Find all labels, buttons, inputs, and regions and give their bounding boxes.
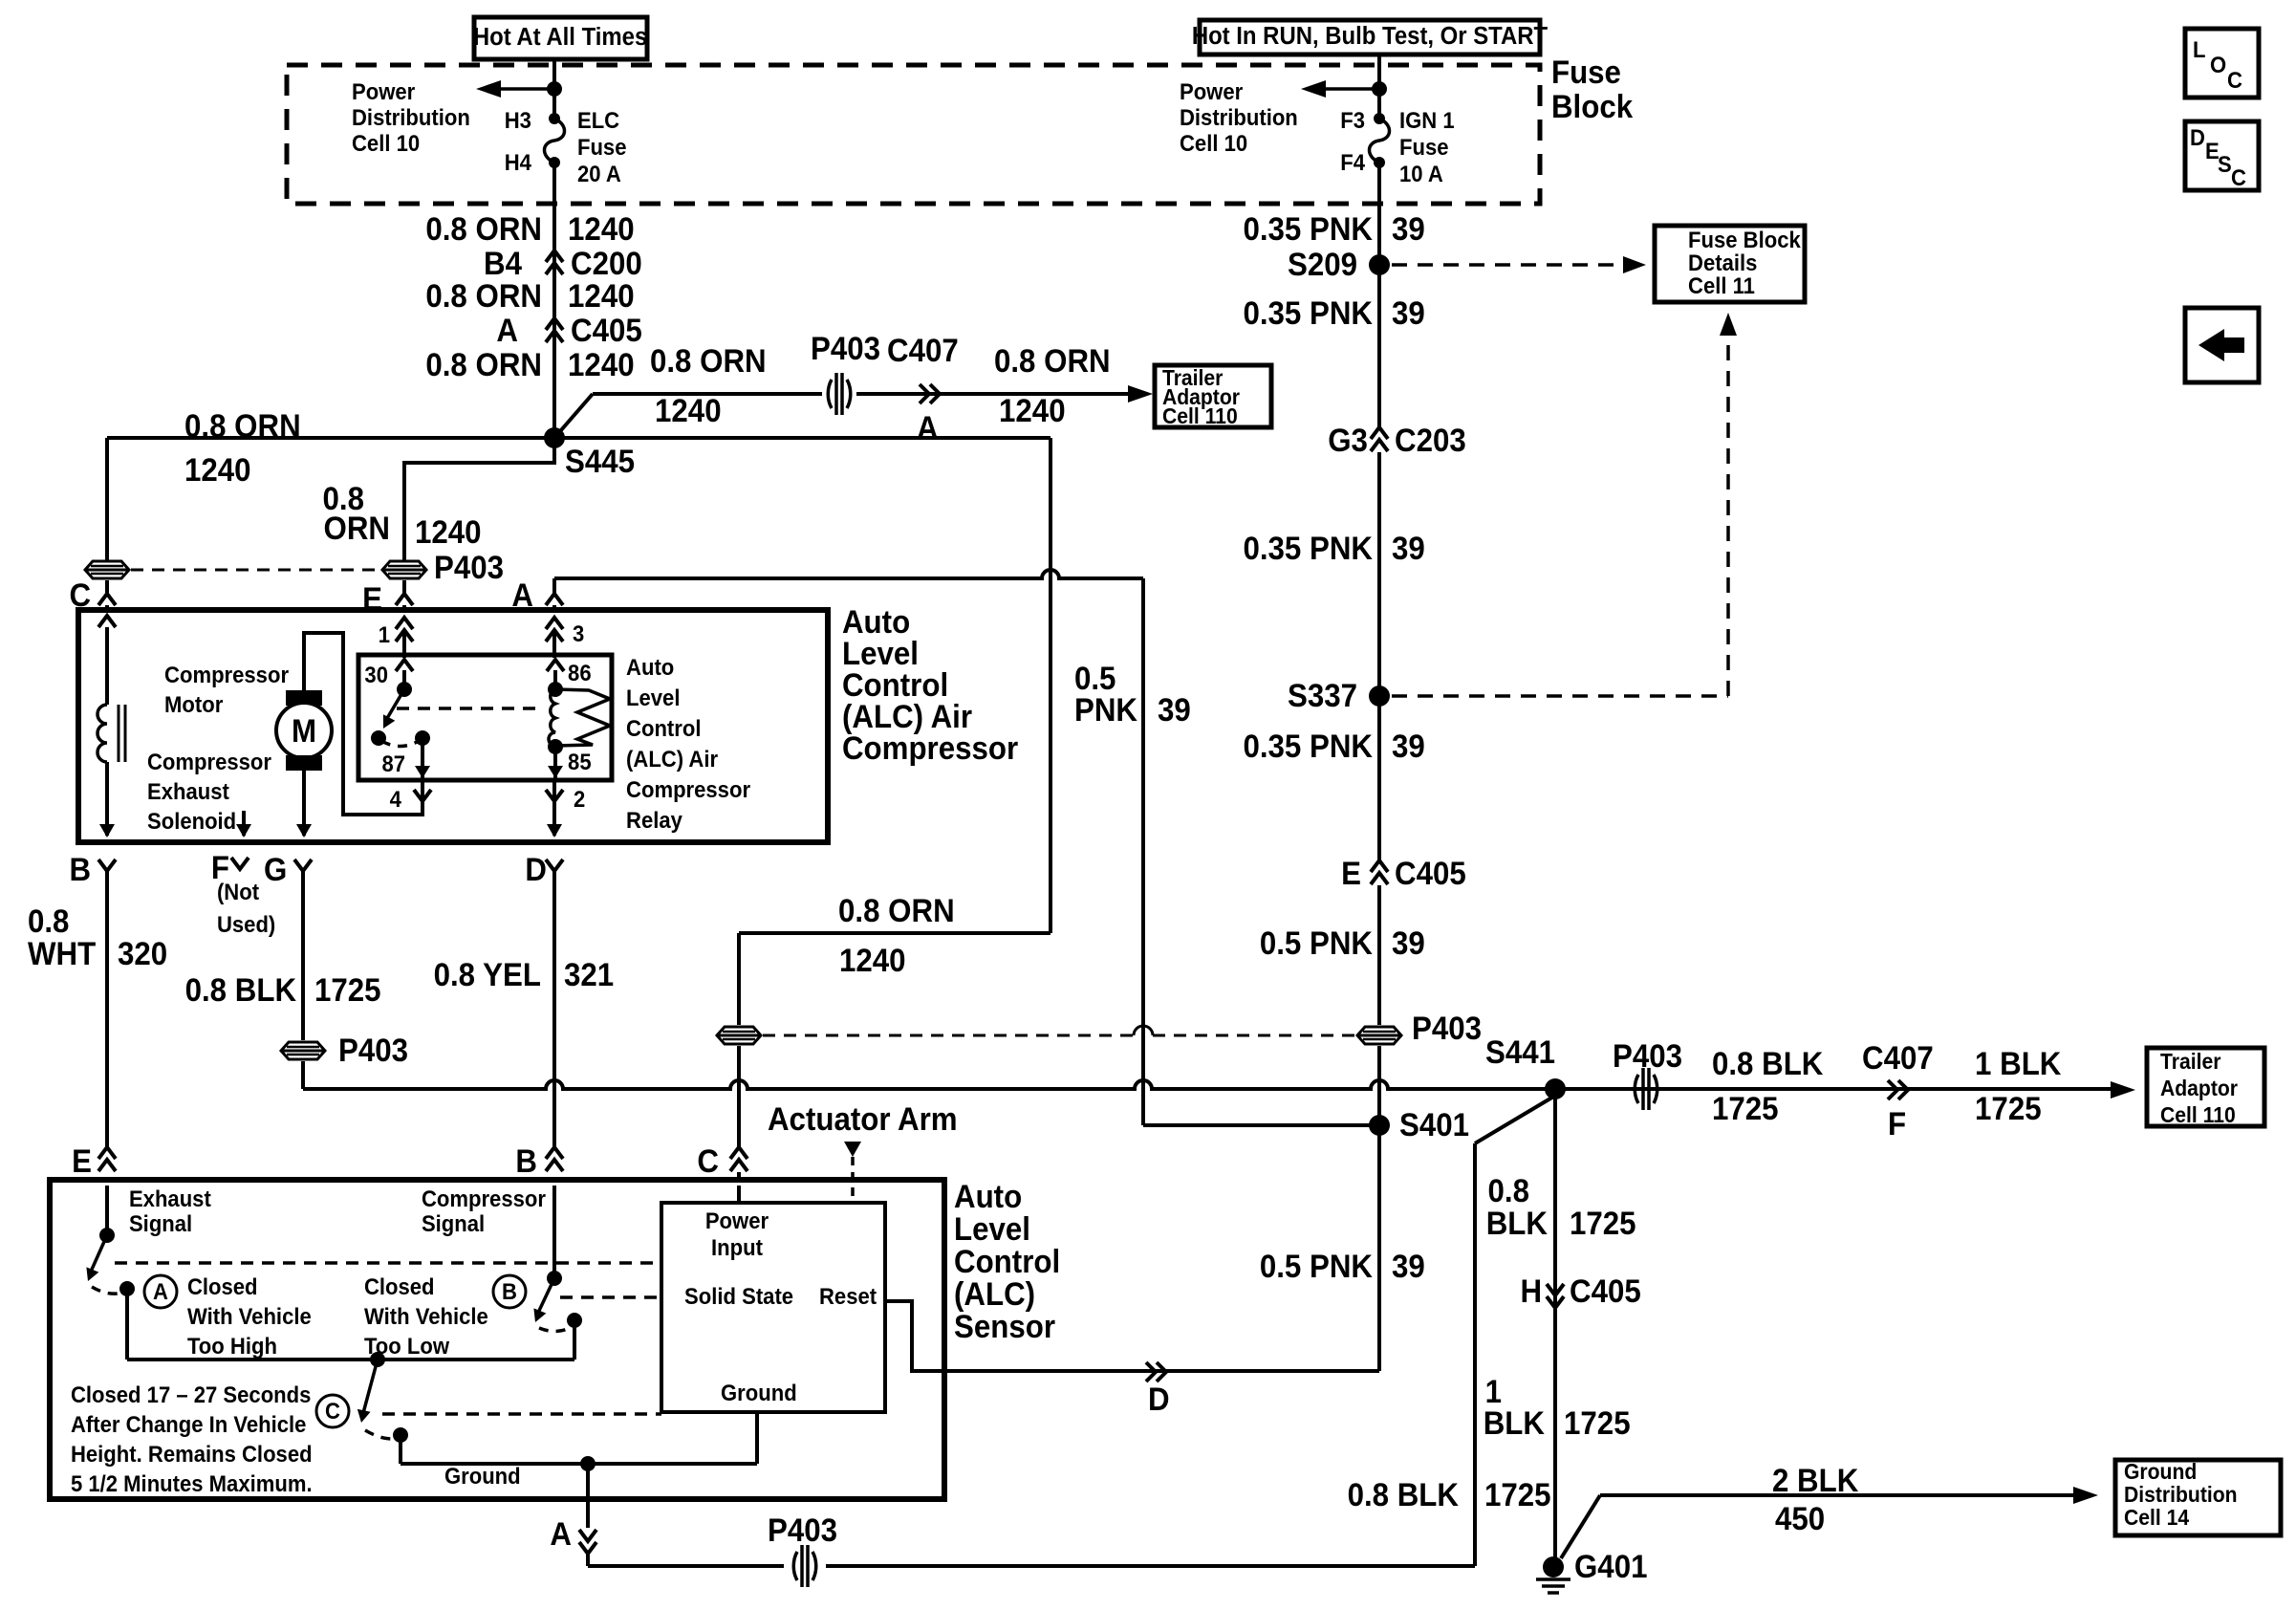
svg-text:(Not: (Not bbox=[217, 879, 259, 904]
svg-text:F3: F3 bbox=[1340, 107, 1365, 133]
svg-text:After Change In Vehicle: After Change In Vehicle bbox=[71, 1411, 307, 1437]
svg-text:G401: G401 bbox=[1574, 1548, 1647, 1585]
svg-text:(ALC) Air: (ALC) Air bbox=[626, 746, 718, 772]
svg-text:D: D bbox=[1148, 1381, 1170, 1418]
svg-text:Fuse: Fuse bbox=[1399, 134, 1449, 160]
dashed reference line S337 to fuse block details bbox=[1392, 694, 1728, 698]
svg-text:1725: 1725 bbox=[1564, 1404, 1631, 1442]
svg-text:Auto: Auto bbox=[626, 654, 674, 680]
svg-text:Hot In RUN, Bulb Test, Or STAR: Hot In RUN, Bulb Test, Or START bbox=[1192, 22, 1548, 50]
svg-text:P403: P403 bbox=[768, 1512, 837, 1549]
wire: grommet down to S401 bbox=[1377, 1046, 1381, 1125]
svg-text:Compressor: Compressor bbox=[422, 1186, 546, 1211]
wire: ELC fuse output down to S445 bbox=[552, 163, 556, 438]
svg-text:O: O bbox=[2210, 52, 2226, 77]
svg-text:3: 3 bbox=[573, 620, 584, 646]
connector F (not used) bbox=[231, 858, 249, 869]
svg-text:H4: H4 bbox=[505, 149, 531, 175]
wire: sensor ground to riser bbox=[588, 1564, 784, 1568]
wire: sensor ground riser bbox=[1473, 1143, 1477, 1566]
svg-text:C: C bbox=[2231, 164, 2246, 190]
svg-text:Block: Block bbox=[1551, 88, 1634, 125]
splice S337 bbox=[1369, 685, 1390, 707]
svg-text:39: 39 bbox=[1158, 691, 1191, 729]
svg-text:86: 86 bbox=[568, 660, 592, 685]
wire: black ground run from G wire to trailer adaptor bbox=[303, 1080, 2111, 1089]
svg-text:85: 85 bbox=[568, 749, 592, 774]
svg-text:1240: 1240 bbox=[568, 210, 635, 248]
wire: E input to exhaust switch bbox=[105, 1186, 109, 1235]
svg-text:Signal: Signal bbox=[129, 1210, 192, 1236]
relay coil winding bbox=[549, 689, 555, 746]
svg-text:C203: C203 bbox=[1395, 422, 1466, 459]
svg-text:Power: Power bbox=[1180, 78, 1243, 104]
svg-text:G: G bbox=[264, 851, 287, 888]
wire: motor to pin G bbox=[302, 771, 306, 836]
compressor switch arm bbox=[538, 1278, 554, 1313]
svg-text:(ALC): (ALC) bbox=[954, 1275, 1035, 1313]
svg-text:1: 1 bbox=[379, 621, 390, 647]
svg-text:1240: 1240 bbox=[184, 451, 251, 489]
connector C405 pin H bbox=[1547, 1284, 1564, 1308]
relay dashed actuation link to coil bbox=[397, 707, 541, 710]
svg-text:Fuse Block: Fuse Block bbox=[1688, 227, 1801, 252]
svg-text:321: 321 bbox=[564, 956, 614, 993]
svg-text:Cell 110: Cell 110 bbox=[1162, 403, 1238, 428]
svg-text:A: A bbox=[550, 1515, 572, 1553]
svg-text:1240: 1240 bbox=[999, 392, 1066, 429]
svg-text:B: B bbox=[515, 1142, 537, 1180]
connector C407-style pin D on reset/PNK line bbox=[1146, 1362, 1166, 1382]
svg-text:E: E bbox=[1341, 855, 1361, 892]
svg-text:P403: P403 bbox=[1613, 1037, 1682, 1075]
connector P403 grommet on PNK wire bbox=[1357, 1027, 1401, 1044]
dashed control link: timer bbox=[382, 1412, 661, 1416]
junction dots at feed taps bbox=[547, 81, 562, 97]
svg-text:1725: 1725 bbox=[314, 971, 381, 1009]
svg-text:S: S bbox=[2218, 151, 2232, 177]
svg-text:1725: 1725 bbox=[1975, 1090, 2042, 1127]
node F3/F4 dots and IGN 1 fuse bbox=[1374, 113, 1385, 124]
svg-text:Reset: Reset bbox=[819, 1283, 877, 1309]
wire: IGN fuse output down to S209 bbox=[1377, 163, 1381, 265]
connector A of sensor bbox=[586, 1499, 590, 1528]
exhaust switch travel dashed arc bbox=[92, 1287, 122, 1294]
component box: Auto Level Control (ALC) Sensor bbox=[50, 1180, 944, 1499]
connector A of compressor bbox=[546, 594, 563, 605]
svg-text:IGN 1: IGN 1 bbox=[1399, 107, 1455, 133]
connector P403 grommet on G wire bbox=[281, 1042, 325, 1059]
connector D of compressor bbox=[546, 859, 563, 871]
svg-text:1240: 1240 bbox=[415, 513, 482, 551]
svg-text:Ground: Ground bbox=[444, 1463, 521, 1489]
svg-text:0.35 PNK: 0.35 PNK bbox=[1243, 530, 1373, 567]
relay switch contact dots bbox=[371, 730, 386, 746]
svg-text:Fuse: Fuse bbox=[577, 134, 627, 160]
svg-text:Cell 11: Cell 11 bbox=[1688, 272, 1755, 298]
wire: S445 stub to relay pin E branch bbox=[404, 438, 554, 560]
wire: G401 branch to ground distribution bbox=[1561, 1495, 1600, 1558]
wire: 0.5 PNK drop to S401 bbox=[1141, 578, 1145, 1125]
svg-text:Cell 110: Cell 110 bbox=[2160, 1102, 2236, 1127]
wire: module reset output bbox=[885, 1301, 1379, 1371]
svg-text:Hot At All Times: Hot At All Times bbox=[473, 23, 647, 51]
legend box back-arrow bbox=[2185, 308, 2259, 382]
svg-text:Relay: Relay bbox=[626, 807, 682, 833]
ground G401 bbox=[1543, 1556, 1564, 1577]
svg-text:C405: C405 bbox=[1570, 1273, 1641, 1310]
connector C407 pin F bbox=[1888, 1080, 1908, 1099]
svg-text:2: 2 bbox=[574, 786, 585, 812]
wire: battery feed into ELC fuse bbox=[552, 59, 556, 119]
connector C407 pin A (trailer feed) bbox=[920, 384, 940, 403]
svg-text:C405: C405 bbox=[571, 312, 642, 349]
circled B note bbox=[493, 1275, 526, 1308]
pin 1 connector arrow inside compressor bbox=[396, 618, 413, 642]
svg-text:0.8 ORN: 0.8 ORN bbox=[650, 342, 767, 380]
wire: S445 diagonal branch to trailer adaptor feed bbox=[554, 394, 593, 438]
svg-text:C407: C407 bbox=[1862, 1039, 1934, 1077]
wire: module ground lead bbox=[755, 1412, 759, 1464]
svg-text:0.8 BLK: 0.8 BLK bbox=[1348, 1476, 1460, 1513]
svg-text:C: C bbox=[2227, 67, 2242, 93]
compressor exhaust solenoid coil bbox=[97, 705, 107, 762]
connector P403 in-line on ground run bbox=[1635, 1075, 1638, 1103]
legend box LOC bbox=[2185, 29, 2259, 98]
actuator arm dashed link bbox=[844, 1142, 861, 1157]
svg-text:1 BLK: 1 BLK bbox=[1975, 1045, 2062, 1082]
svg-text:L: L bbox=[2193, 36, 2205, 62]
svg-text:Solenoid: Solenoid bbox=[147, 808, 236, 834]
wire: S441 diagonal to sensor ground riser bbox=[1475, 1096, 1555, 1143]
timer switch arm bbox=[363, 1360, 378, 1413]
svg-text:H: H bbox=[1520, 1273, 1542, 1310]
svg-text:Sensor: Sensor bbox=[954, 1308, 1055, 1345]
connector B of sensor bbox=[546, 1147, 563, 1171]
label box: Trailer Adaptor Cell 110 (top) bbox=[1155, 365, 1271, 427]
connector grommet on pin C wire bbox=[85, 561, 129, 578]
ground junction dot bbox=[580, 1456, 596, 1471]
svg-text:BLK: BLK bbox=[1484, 1404, 1546, 1442]
svg-text:Fuse: Fuse bbox=[1551, 54, 1621, 91]
connector C of compressor bbox=[105, 580, 109, 593]
wire: ignition feed into IGN 1 fuse bbox=[1377, 54, 1381, 119]
svg-text:P403: P403 bbox=[434, 549, 504, 586]
svg-text:1725: 1725 bbox=[1570, 1205, 1636, 1242]
wire: 0.8 ORN 1240 feed to C407 trailer adaptor bbox=[593, 392, 822, 396]
wire: S445 right branch toward ALC sensor power bbox=[554, 436, 1051, 440]
svg-text:39: 39 bbox=[1392, 925, 1425, 962]
svg-text:1240: 1240 bbox=[655, 392, 722, 429]
wire: horizontal to sensor power input drop bbox=[739, 931, 1051, 935]
svg-text:M: M bbox=[292, 712, 316, 750]
label box: Trailer Adaptor Cell 110 (right) bbox=[2147, 1048, 2264, 1126]
svg-text:Used): Used) bbox=[217, 911, 275, 937]
svg-text:H3: H3 bbox=[505, 107, 531, 133]
dashed pairing line to P403 grommet on PNK wire bbox=[763, 1034, 1134, 1037]
svg-text:D: D bbox=[525, 851, 547, 888]
label box: Fuse Block Details Cell 11 bbox=[1655, 226, 1805, 302]
svg-text:BLK: BLK bbox=[1486, 1205, 1549, 1242]
svg-text:Compressor: Compressor bbox=[164, 662, 289, 687]
svg-text:Closed: Closed bbox=[364, 1273, 435, 1299]
relay switch movable arm bbox=[386, 689, 404, 720]
svg-text:With Vehicle: With Vehicle bbox=[364, 1303, 488, 1329]
compressor switch pivot bbox=[547, 1271, 562, 1286]
svg-text:B: B bbox=[502, 1278, 517, 1304]
svg-text:0.5 PNK: 0.5 PNK bbox=[1260, 925, 1374, 962]
svg-text:Exhaust: Exhaust bbox=[129, 1186, 211, 1211]
svg-text:F: F bbox=[1888, 1105, 1906, 1142]
connector P403 grommet on sensor power wire bbox=[717, 1027, 761, 1044]
svg-text:S337: S337 bbox=[1288, 677, 1357, 714]
svg-text:0.8 ORN: 0.8 ORN bbox=[994, 342, 1111, 380]
connector C405 pin A bbox=[546, 318, 563, 342]
wire: drop to sensor C input bbox=[737, 933, 741, 1025]
svg-text:30: 30 bbox=[364, 662, 388, 687]
connector E of sensor bbox=[98, 1147, 116, 1171]
svg-text:39: 39 bbox=[1392, 1248, 1425, 1285]
wire: sensor internal ground run bbox=[401, 1462, 757, 1466]
node H3/H4 dots and ELC fuse bbox=[549, 113, 560, 124]
pin F stub (not used) bbox=[242, 811, 246, 836]
svg-text:C: C bbox=[697, 1142, 719, 1180]
compressor switch travel dashed arc bbox=[539, 1328, 570, 1332]
wire: B input to compressor switch bbox=[552, 1186, 556, 1278]
relay box: ALC Air Compressor Relay bbox=[358, 655, 612, 780]
wire: pin C into exhaust solenoid bbox=[98, 616, 116, 627]
svg-text:Adaptor: Adaptor bbox=[2160, 1076, 2238, 1100]
svg-text:39: 39 bbox=[1392, 294, 1425, 332]
svg-text:0.5 PNK: 0.5 PNK bbox=[1260, 1248, 1374, 1285]
svg-text:Level: Level bbox=[954, 1210, 1030, 1248]
svg-text:Level: Level bbox=[626, 685, 680, 710]
svg-text:C405: C405 bbox=[1395, 855, 1466, 892]
svg-text:B: B bbox=[69, 851, 91, 888]
connector G of compressor bbox=[294, 859, 312, 871]
svg-text:Cell 14: Cell 14 bbox=[2124, 1505, 2190, 1530]
connector C of ALC sensor bbox=[730, 1147, 747, 1171]
svg-text:450: 450 bbox=[1775, 1500, 1825, 1537]
svg-text:Distribution: Distribution bbox=[1180, 104, 1298, 130]
svg-text:0.8 BLK: 0.8 BLK bbox=[185, 971, 297, 1009]
svg-text:Cell 10: Cell 10 bbox=[352, 130, 420, 156]
svg-text:0.35 PNK: 0.35 PNK bbox=[1243, 210, 1373, 248]
splice S441 bbox=[1545, 1078, 1566, 1099]
wire: G wire to ground run bbox=[301, 1061, 305, 1089]
wire: exhaust contact down bbox=[125, 1289, 129, 1360]
relay output 2 lead down bbox=[546, 790, 563, 801]
svg-text:1240: 1240 bbox=[568, 277, 635, 315]
svg-text:Cell 10: Cell 10 bbox=[1180, 130, 1247, 156]
circled C note bbox=[316, 1395, 349, 1427]
svg-text:39: 39 bbox=[1392, 210, 1425, 248]
svg-text:39: 39 bbox=[1392, 728, 1425, 765]
connector B of compressor bbox=[98, 859, 116, 871]
connector C405 pin E bbox=[1371, 860, 1388, 884]
svg-text:S445: S445 bbox=[565, 443, 635, 480]
svg-text:F4: F4 bbox=[1340, 149, 1365, 175]
svg-text:20 A: 20 A bbox=[577, 161, 621, 186]
svg-text:WHT: WHT bbox=[28, 935, 96, 972]
svg-text:0.8 ORN: 0.8 ORN bbox=[425, 277, 542, 315]
svg-text:4: 4 bbox=[390, 786, 401, 812]
svg-text:P403: P403 bbox=[1412, 1010, 1482, 1047]
svg-text:Compressor: Compressor bbox=[842, 729, 1018, 767]
arrowhead into trailer adaptor cell bbox=[2111, 1081, 2135, 1099]
legend box DESC bbox=[2185, 121, 2259, 190]
relay switch travel dashed arc bbox=[381, 741, 419, 747]
wire: S337 down to C405 pin E bbox=[1377, 696, 1381, 860]
svg-text:Solid State: Solid State bbox=[684, 1283, 793, 1309]
svg-text:With Vehicle: With Vehicle bbox=[187, 1303, 312, 1329]
svg-text:0.8: 0.8 bbox=[1487, 1172, 1528, 1209]
arrow to power distribution (left) bbox=[483, 87, 554, 91]
fuse block dashed boundary bbox=[287, 65, 1540, 204]
svg-text:P403: P403 bbox=[811, 330, 880, 367]
svg-text:S441: S441 bbox=[1485, 1033, 1555, 1071]
wire: solenoid to pin B bbox=[105, 762, 109, 836]
wire: left branch down to pin C bbox=[105, 438, 109, 560]
connector E of compressor bbox=[402, 580, 406, 593]
svg-text:Auto: Auto bbox=[954, 1178, 1022, 1215]
svg-text:Input: Input bbox=[711, 1234, 763, 1260]
wire: C203 down to S337 bbox=[1377, 452, 1381, 696]
label box: Hot In RUN, Bulb Test, Or START bbox=[1200, 20, 1540, 54]
compressor motor M bbox=[286, 690, 322, 706]
svg-text:ELC: ELC bbox=[577, 107, 619, 133]
svg-text:S401: S401 bbox=[1399, 1106, 1469, 1143]
wire: pin A elbow feed across to sensor branch bbox=[554, 570, 1143, 578]
splice S401 bbox=[1369, 1115, 1390, 1136]
compressor switch contact bbox=[567, 1313, 582, 1328]
svg-text:0.8 YEL: 0.8 YEL bbox=[434, 956, 541, 993]
wire: C405 to P403 grommet bbox=[1377, 885, 1381, 1025]
svg-text:D: D bbox=[2190, 124, 2205, 150]
relay pin 85 lead bbox=[553, 747, 557, 778]
svg-text:Motor: Motor bbox=[164, 691, 223, 717]
svg-text:0.8 ORN: 0.8 ORN bbox=[838, 892, 955, 929]
svg-text:Closed: Closed bbox=[187, 1273, 258, 1299]
exhaust switch arm bbox=[91, 1235, 107, 1272]
connector C200 pin B4 bbox=[546, 250, 563, 274]
svg-text:C407: C407 bbox=[887, 332, 959, 369]
svg-text:Ground: Ground bbox=[721, 1380, 797, 1405]
splice S445 bbox=[544, 427, 565, 448]
connector C203 pin G3 bbox=[1371, 427, 1388, 451]
svg-text:A: A bbox=[496, 312, 518, 349]
dashed pairing line between grommets bbox=[131, 569, 380, 572]
exhaust switch pivot bbox=[99, 1228, 115, 1243]
svg-text:1725: 1725 bbox=[1484, 1476, 1551, 1513]
svg-text:5 1/2 Minutes Maximum.: 5 1/2 Minutes Maximum. bbox=[71, 1470, 313, 1496]
wire: elbow to S401 splice bbox=[1143, 1123, 1379, 1127]
svg-text:1725: 1725 bbox=[1712, 1090, 1779, 1127]
svg-text:Power: Power bbox=[705, 1207, 769, 1233]
svg-text:PNK: PNK bbox=[1074, 691, 1137, 729]
pin 3 connector arrow inside compressor bbox=[546, 618, 563, 642]
timer switch contact bbox=[393, 1427, 408, 1443]
component box: Auto Level Control (ALC) Air Compressor bbox=[78, 610, 828, 842]
relay pin 86 terminal bbox=[547, 660, 564, 671]
svg-text:Closed 17 – 27 Seconds: Closed 17 – 27 Seconds bbox=[71, 1382, 311, 1407]
svg-text:S209: S209 bbox=[1288, 246, 1357, 283]
wire: S209 down to C203 bbox=[1377, 265, 1381, 427]
wire: S401 down to sensor D elbow bbox=[1377, 1125, 1381, 1371]
splice S209 bbox=[1369, 254, 1390, 275]
svg-text:C: C bbox=[325, 1398, 340, 1424]
connector P403 in-line on sensor ground bbox=[793, 1552, 797, 1580]
svg-text:B4: B4 bbox=[484, 245, 522, 282]
svg-text:Actuator Arm: Actuator Arm bbox=[768, 1100, 958, 1138]
label box: Hot At All Times bbox=[474, 17, 647, 59]
svg-text:10 A: 10 A bbox=[1399, 161, 1443, 186]
svg-text:Power: Power bbox=[352, 78, 415, 104]
wire: S445 left branch to compressor pin C bbox=[107, 436, 554, 440]
svg-text:Height. Remains Closed: Height. Remains Closed bbox=[71, 1441, 313, 1467]
timer switch travel dashed arc bbox=[365, 1430, 395, 1439]
exhaust switch contact bbox=[119, 1281, 135, 1296]
svg-text:87: 87 bbox=[381, 751, 405, 776]
svg-text:0.8: 0.8 bbox=[28, 903, 69, 940]
svg-text:1240: 1240 bbox=[568, 346, 635, 383]
svg-text:A: A bbox=[917, 409, 939, 446]
connector P403 grommet on pin E wire bbox=[382, 561, 426, 578]
svg-text:Ground: Ground bbox=[2124, 1459, 2197, 1484]
svg-text:Distribution: Distribution bbox=[352, 104, 470, 130]
label box: Ground Distribution Cell 14 bbox=[2115, 1460, 2281, 1535]
svg-text:0.8 ORN: 0.8 ORN bbox=[425, 210, 542, 248]
svg-text:Signal: Signal bbox=[422, 1210, 485, 1236]
dashed reference line S209 to fuse block details bbox=[1392, 263, 1625, 267]
svg-text:320: 320 bbox=[118, 935, 167, 972]
timer switch pivot bbox=[370, 1352, 385, 1367]
arrow to power distribution (right) bbox=[1308, 87, 1379, 91]
relay output 4 to motor wire bbox=[414, 790, 431, 801]
svg-text:1240: 1240 bbox=[839, 942, 906, 979]
relay switch pivot dot (30) bbox=[397, 682, 412, 697]
svg-text:Details: Details bbox=[1688, 250, 1757, 275]
svg-text:P403: P403 bbox=[338, 1032, 408, 1069]
wire: ground out through pin A bbox=[586, 1464, 590, 1499]
dashed control link: exhaust signal bbox=[115, 1261, 661, 1265]
svg-text:0.8 ORN: 0.8 ORN bbox=[184, 407, 301, 445]
svg-text:C200: C200 bbox=[571, 245, 642, 282]
svg-text:G3: G3 bbox=[1328, 422, 1368, 459]
wire: compressor contact down bbox=[573, 1320, 576, 1360]
wire: right branch down to power-input loop bbox=[1049, 438, 1052, 933]
svg-text:Too High: Too High bbox=[187, 1333, 277, 1359]
wire: S441 down to G401 bbox=[1553, 1089, 1557, 1567]
svg-text:Compressor: Compressor bbox=[147, 749, 271, 774]
relay pin 87 lead bbox=[421, 738, 424, 778]
svg-text:Exhaust: Exhaust bbox=[147, 778, 229, 804]
svg-text:2 BLK: 2 BLK bbox=[1772, 1462, 1859, 1499]
wire: timer contact down to ground run bbox=[399, 1435, 402, 1464]
svg-text:Compressor: Compressor bbox=[626, 776, 750, 802]
circled A note bbox=[144, 1275, 177, 1308]
svg-text:Control: Control bbox=[626, 715, 701, 741]
svg-text:ORN: ORN bbox=[324, 510, 390, 547]
connector P403 (in-line) on trailer feed bbox=[828, 380, 832, 408]
svg-text:Control: Control bbox=[954, 1243, 1060, 1280]
inner solid state module box bbox=[661, 1203, 885, 1412]
relay coil resistor bbox=[555, 689, 610, 746]
svg-text:0.35 PNK: 0.35 PNK bbox=[1243, 294, 1373, 332]
svg-text:Trailer: Trailer bbox=[2160, 1049, 2221, 1074]
svg-text:0.8 BLK: 0.8 BLK bbox=[1712, 1045, 1824, 1082]
svg-text:39: 39 bbox=[1392, 530, 1425, 567]
